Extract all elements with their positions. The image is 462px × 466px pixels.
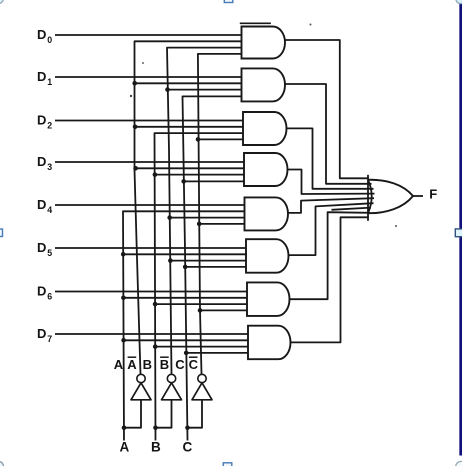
svg-text:D: D (37, 197, 46, 212)
wire A-bar branch to gate 3 + junction dot (135, 126, 243, 128)
wire AND gate 2 output to OR input (284, 84, 372, 184)
selection handle mid-right (455, 229, 462, 237)
wire B input branch to inverter U2 + junction dot (156, 400, 172, 428)
svg-text:D: D (37, 113, 46, 128)
wire select-line A (bends into gate 5 input 2) (123, 211, 245, 440)
wire select-line B-bar (inverter U2 output, bends into gate 1 input 3) (167, 48, 242, 375)
svg-text:2: 2 (47, 120, 52, 130)
svg-text:F: F (429, 187, 437, 202)
svg-text:C: C (175, 357, 185, 372)
wire A branch to gate 7 + junction dot (123, 297, 247, 299)
svg-text:0: 0 (47, 35, 52, 45)
wire C-bar branch to gate 3 + junction dot (198, 138, 243, 140)
wire AND gate 7 output to OR input (289, 212, 371, 299)
svg-text:A: A (120, 440, 130, 455)
inverter U3 bubble (C-bar) (198, 374, 206, 382)
AND gate 7 (D6·A·B·C̄) (247, 282, 290, 316)
selection border right (navy) (459, 3, 462, 456)
selection handle mid-left (0, 229, 3, 237)
svg-text:D: D (37, 326, 46, 341)
wire C branch to gate 4 + junction dot (184, 180, 244, 182)
wire A branch to gate 6 + junction dot (123, 253, 246, 255)
svg-text:D: D (37, 284, 46, 299)
selection handle bottom-mid (223, 463, 232, 466)
wire B branch to gate 7 + junction dot (155, 303, 247, 305)
wire select-line C (bends into gate 2 input 4) (183, 96, 242, 440)
wire select-line A-bar (inverter U1 output, bends into gate 1 input 2) (135, 41, 242, 374)
wire B-bar branch to gate 5 + junction dot (170, 217, 245, 219)
wire C input branch to inverter U3 + junction dot (188, 400, 203, 428)
svg-text:6: 6 (47, 291, 52, 301)
inverter U1 bubble (A-bar) (137, 374, 145, 382)
svg-text:C: C (183, 440, 193, 455)
wire C-bar branch to gate 7 + junction dot (200, 309, 247, 311)
wire B branch to gate 8 + junction dot (155, 346, 248, 348)
selection handle bottom-right (456, 461, 462, 466)
inverter U3 triangle (192, 383, 212, 400)
stray scan line above gate 1 (240, 22, 271, 24)
wire AND gate 1 output to OR input (284, 40, 369, 178)
svg-text:3: 3 (47, 162, 52, 172)
wire C branch to gate 6 + junction dot (185, 266, 246, 268)
wire C branch to gate 8 + junction dot (186, 352, 248, 354)
wire A-bar branch to gate 4 + junction dot (136, 167, 244, 169)
wire select-line B (bends into gate 3 input 3) (155, 133, 244, 440)
svg-text:C: C (189, 357, 199, 372)
svg-text:B: B (143, 357, 152, 372)
svg-text:D: D (37, 27, 46, 42)
wire D5 to AND gate 6 (55, 247, 246, 249)
wire OR output to F (413, 195, 424, 197)
wire AND gate 8 output to OR input (290, 217, 369, 342)
wire D0 to AND gate 1 (55, 34, 242, 36)
wire C-bar branch to gate 5 + junction dot (199, 223, 244, 225)
OR gate U9 body (368, 180, 372, 213)
wire AND gate 3 output to OR input (286, 128, 374, 188)
wire B-bar branch to gate 2 + junction dot (168, 89, 242, 91)
svg-text:B: B (160, 357, 169, 372)
wire select-line C-bar (inverter U3 output, bends into gate 1 input 4) (198, 54, 242, 374)
selection handle top-right (456, 0, 462, 4)
wire B-bar branch to gate 6 + junction dot (170, 260, 246, 262)
AND gate 6 (D5·A·B̄·C) (246, 239, 289, 273)
wire D7 to AND gate 8 (55, 333, 248, 335)
wire D4 to AND gate 5 (55, 204, 245, 206)
wire AND gate 6 output to OR input (288, 203, 374, 255)
AND gate 5 (D4·A·B̄·C̄) (244, 197, 287, 230)
svg-text:D: D (37, 240, 46, 255)
selection handle top-mid (224, 0, 233, 3)
wire D3 to AND gate 4 (55, 161, 244, 163)
wire A branch to gate 8 + junction dot (124, 339, 248, 341)
wire A-bar branch to gate 2 + junction dot (135, 82, 242, 84)
AND gate 2 (D1·Ā·B̄·C) (241, 68, 284, 101)
wire D6 to AND gate 7 (55, 291, 247, 293)
AND gate 3 (D2·Ā·B·C̄) (243, 112, 286, 145)
wire AND gate 4 output to OR input (287, 170, 375, 195)
svg-text:A: A (127, 357, 137, 372)
AND gate 1 (D0·Ā·B̄·C̄) (241, 27, 284, 59)
svg-text:B: B (151, 440, 161, 455)
selection handle bottom-left (0, 462, 4, 466)
wire A input branch to inverter U1 + junction dot (124, 400, 141, 428)
inverter U2 triangle (162, 383, 182, 400)
wire B branch to gate 4 + junction dot (155, 174, 244, 176)
svg-text:D: D (37, 154, 46, 169)
wire D2 to AND gate 3 (55, 120, 243, 122)
svg-text:7: 7 (47, 334, 52, 344)
svg-text:D: D (37, 69, 46, 84)
svg-text:5: 5 (47, 248, 52, 258)
svg-text:1: 1 (47, 77, 52, 87)
stray scan wire into OR gate (332, 208, 372, 210)
AND gate 8 (D7·A·B·C) (248, 326, 290, 360)
selection handle top-left (0, 0, 4, 4)
wire AND gate 5 output to OR input (287, 198, 374, 213)
svg-text:A: A (114, 357, 124, 372)
OR gate back tick line (367, 175, 369, 221)
svg-text:4: 4 (47, 205, 52, 215)
inverter U1 triangle (131, 383, 151, 400)
inverter U2 bubble (B-bar) (167, 374, 175, 382)
scan speckle (310, 24, 312, 26)
wire D1 to AND gate 2 (55, 76, 242, 78)
AND gate 4 (D3·Ā·B·C) (244, 153, 287, 186)
